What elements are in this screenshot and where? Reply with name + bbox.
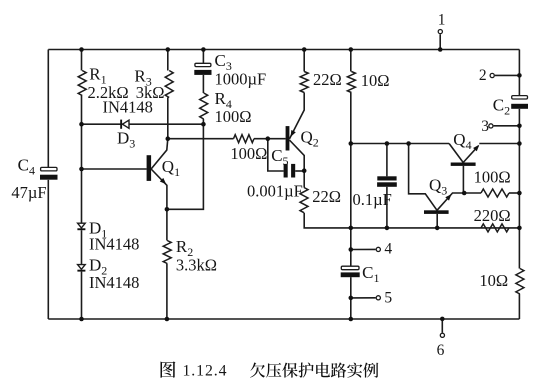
svg-text:1.12.4: 1.12.4 [183,363,228,380]
node Q3 base [435,226,440,231]
terminal 1 [439,34,441,49]
resistor R1 [78,71,86,96]
node R4 bottom [201,122,206,127]
svg-text:0.001µF: 0.001µF [247,181,303,200]
resistor 100ohm series [234,135,255,143]
node bottom rail mid [349,317,354,322]
svg-text:Q1: Q1 [162,157,180,179]
diode D1 [78,223,86,228]
node midrow cap [385,141,390,146]
capacitor C3 [195,63,211,66]
node T3 rail [517,124,522,129]
svg-text:1: 1 [438,11,446,28]
wire left rail lower [47,180,49,319]
node top-22ohm [302,47,307,52]
wire mid rail [350,93,352,250]
svg-text:Q2: Q2 [301,128,319,150]
diode D3 [120,120,122,129]
svg-text:10Ω: 10Ω [479,271,508,290]
terminal 4 [351,248,376,250]
wire 22ohm to bottom row [304,213,519,228]
svg-text:IN4148: IN4148 [89,234,139,253]
node Q1 emitter [165,207,170,212]
wire Q1 base row [82,168,147,170]
node top-C3 [201,47,206,52]
wire 100ohm to right rail [509,192,519,194]
wire R1 to D1 [81,96,83,224]
wire D1 to D2 [81,230,83,264]
svg-text:2: 2 [479,67,487,84]
wire right rail upper [518,50,520,96]
resistor 22ohm lower lead [303,171,305,188]
svg-text:220Ω: 220Ω [474,206,511,225]
node Q4 base [462,191,467,196]
transistor Q1 [147,155,152,181]
wire R2 to bottom [166,264,168,320]
node D3 left [79,122,84,127]
svg-text:D3: D3 [117,129,135,151]
wire Q1 emitter to R2 [166,209,168,240]
terminal 5 [351,297,376,299]
node T2 rail [517,73,522,78]
svg-text:22Ω: 22Ω [313,70,342,89]
resistor 10ohm upper [347,72,355,93]
node Q1 base rail [79,167,84,172]
wire right rail middle [518,109,520,269]
resistor R3 [165,71,173,98]
resistor 220ohm [481,224,509,232]
node Q2 base [266,136,271,141]
node midrow left [349,141,354,146]
node top-R3 [166,47,171,52]
wire mid row [351,143,449,145]
svg-text:100Ω: 100Ω [230,144,267,163]
capacitor C2 [512,96,528,99]
capacitor C4 [41,167,57,171]
wire left rail upper [47,50,49,168]
terminal 3 [494,125,520,127]
svg-text:C2: C2 [493,96,510,118]
node Q4 emitter rail [517,141,522,146]
node bottom D2 [79,317,84,322]
svg-text:47µF: 47µF [11,183,46,202]
caption figure title [160,361,175,377]
node T5 [349,296,354,301]
svg-text:IN4148: IN4148 [89,273,139,292]
transistor Q4 [449,144,463,163]
resistor R2 [163,241,171,264]
capacitor C1 [341,266,359,270]
capacitor C5 [284,164,288,178]
node bottom R2 [165,317,170,322]
terminal 2 [495,74,520,76]
wire C3 top lead [202,50,204,64]
node T6 [440,317,445,322]
wire R4 loop [167,124,204,209]
resistor 22ohm upper [300,72,308,93]
node top-T1 [438,47,443,52]
wire C1 bottom lead [350,277,352,319]
wire D2 to bottom [81,272,83,319]
svg-text:Q4: Q4 [453,130,471,152]
transistor Q2 [286,126,290,150]
svg-text:100Ω: 100Ω [215,107,252,126]
svg-text:100Ω: 100Ω [474,167,511,186]
resistor 100ohm right [481,189,509,197]
wire C5 branch [268,139,284,171]
svg-text:0.1µF: 0.1µF [353,190,392,209]
node Q2 collector [302,168,307,173]
wire 10ohm-up top lead [350,50,352,72]
svg-text:C4: C4 [18,155,35,177]
node top-R1 [79,47,84,52]
node midrow Q3 [406,141,411,146]
terminal 6 [441,319,443,333]
wire Q4 base node to 100ohm [464,192,481,194]
wire R4 bottom lead [202,119,204,124]
wire 22ohm-up top lead [303,50,305,72]
diode D2 [78,265,86,270]
wire C1 top lead [350,250,352,267]
capacitor 0.1uF [386,144,388,177]
resistor R4 [200,93,208,119]
node R3 bottom [166,136,171,141]
resistor 10ohm lower [516,269,524,295]
wire R3 top lead [167,50,169,71]
wire node to 100ohm [168,138,234,140]
node 100ohm rail [517,191,522,196]
svg-text:4: 4 [384,240,392,257]
node bottomrow cap [385,226,390,231]
wire top rail [48,49,519,51]
svg-text:IN4148: IN4148 [103,97,153,116]
wire bottom rail [48,318,519,320]
wire C3 to R4 [202,75,204,93]
wire right rail lower [518,294,520,319]
node top-10ohm [349,47,354,52]
node T4 [349,247,354,252]
svg-text:5: 5 [384,289,392,306]
svg-text:3: 3 [481,118,489,135]
svg-text:10Ω: 10Ω [361,71,390,90]
svg-text:6: 6 [437,342,445,359]
svg-text:C1: C1 [362,263,379,285]
resistor 22ohm lower [300,188,308,213]
svg-text:22Ω: 22Ω [312,187,341,206]
svg-text:1000µF: 1000µF [215,69,267,88]
wire rail R1-D1-D2 [81,50,83,71]
node 220ohm rail [517,226,522,231]
wire 100ohm to Q2 base [254,138,286,140]
wire C5 to node [295,170,304,172]
node bottomrow rail [349,226,354,231]
svg-text:3.3kΩ: 3.3kΩ [176,255,217,274]
svg-text:Q3: Q3 [429,175,447,197]
wire D3 row [82,123,204,125]
wire R3 to node [167,98,169,139]
transistor Q3 [409,144,437,211]
